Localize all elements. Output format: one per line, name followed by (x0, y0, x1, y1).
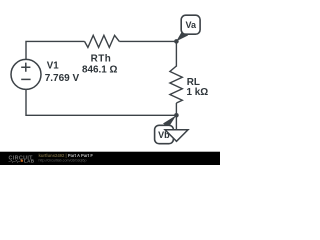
wire: node Va down to RL top (175, 41, 177, 66)
flag Vb tail (163, 115, 176, 127)
footer bar (0, 152, 220, 165)
wire: RTh right to node Va junction (119, 40, 176, 42)
node Va junction dot (174, 39, 179, 44)
svg-text:Va: Va (185, 20, 197, 30)
CircuitLab logo: orange dot (21, 160, 23, 162)
svg-text:LAB: LAB (24, 158, 35, 163)
flag Va tail (176, 32, 188, 42)
ground (165, 130, 188, 142)
V1 minus sign (21, 78, 30, 80)
V1 plus sign (21, 63, 30, 72)
flag Va box (181, 15, 200, 34)
flag Vb box (155, 125, 174, 143)
resistor RL (170, 66, 182, 103)
node Vb junction dot (174, 113, 179, 118)
wire: top-left corner from V1 top to RTh left (26, 41, 85, 59)
svg-text:RTh: RTh (91, 54, 112, 65)
voltage source V1 (11, 59, 41, 89)
svg-text:846.1 Ω: 846.1 Ω (82, 65, 117, 76)
wire: V1 bottom to bottom rail (26, 89, 176, 115)
resistor RTh (85, 35, 120, 47)
svg-text:kurtluns2492 | Part A Part F: kurtluns2492 | Part A Part F (39, 153, 94, 158)
CircuitLab logo: squiggle (9, 160, 21, 163)
svg-text:7.769 V: 7.769 V (45, 73, 80, 84)
svg-text:V1: V1 (47, 60, 59, 71)
svg-text:http://circuitlab.com/c6rb3qt6: http://circuitlab.com/c6rb3qt6p (39, 159, 87, 163)
svg-text:1 kΩ: 1 kΩ (187, 87, 209, 98)
wire: RL bottom to node Vb junction to ground (175, 103, 177, 130)
